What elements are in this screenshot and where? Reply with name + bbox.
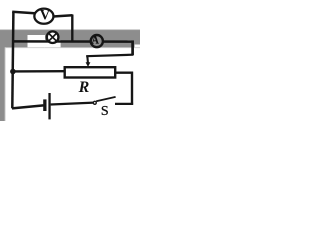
white patch left of lamp [28, 35, 46, 47]
battery short thick plate [43, 99, 46, 111]
svg-text:S: S [101, 104, 109, 119]
background [0, 0, 140, 121]
wire: top horizontal to voltmeter [12, 12, 34, 13]
wire: bottom right horizontal to switch contact [115, 103, 133, 105]
switch lever [96, 97, 115, 101]
wire: top-right vertical [131, 40, 134, 55]
svg-text:A: A [92, 33, 99, 47]
wire: lead to rheostat left [13, 70, 65, 73]
wire: rheostat right lead [115, 71, 133, 73]
wire: voltmeter to top-right corner [53, 15, 73, 16]
wire: left vertical [12, 12, 13, 109]
white patch under lamp [44, 40, 61, 47]
slider arrowhead [86, 62, 91, 67]
switch pivot circle [93, 101, 96, 104]
lamp X cross [49, 33, 57, 41]
wire: bottom left horizontal to battery [12, 105, 44, 108]
slider arrow shaft [86, 55, 89, 62]
svg-text:V: V [40, 8, 50, 24]
wire: horizontal to slider arrow [86, 55, 133, 57]
junction dot [10, 69, 16, 75]
gray highlight band [0, 30, 140, 47]
lamp circle [47, 31, 59, 43]
ammeter circle [91, 35, 103, 47]
gray left column [0, 47, 5, 121]
wire: voltmeter branch vertical drop [71, 15, 73, 43]
wire: main horizontal line [12, 40, 134, 43]
wire: battery to switch [51, 103, 94, 105]
white notch right of TR vertical [135, 45, 140, 48]
wire: bottom-right vertical [131, 72, 133, 105]
rheostat R body [65, 67, 116, 77]
voltmeter ellipse [34, 9, 53, 24]
svg-text:R: R [78, 79, 90, 96]
battery long thin plate [48, 93, 50, 119]
